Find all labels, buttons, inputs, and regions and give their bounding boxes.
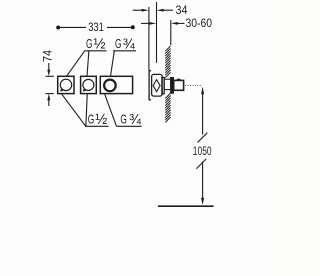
dimension 30-60 left-pointing arrowhead bbox=[171, 22, 178, 25]
valve body side view bbox=[152, 74, 163, 96]
dimension 74 lower tick bbox=[46, 93, 54, 95]
handle top ridge bbox=[177, 78, 181, 80]
dimension 331 dot right bbox=[131, 25, 135, 29]
spacer ring bbox=[162, 77, 164, 93]
svg-text:½: ½ bbox=[94, 36, 106, 53]
dimension 74 lower arrow line bbox=[48, 100, 50, 106]
handle knob bbox=[174, 80, 184, 90]
leader square 1 to G 1/2 bottom bbox=[62, 94, 86, 126]
dimension 1050 upper arrowhead (up) bbox=[201, 87, 204, 95]
dimension 30-60 tail line bbox=[141, 22, 150, 24]
wall hatching upper band bbox=[165, 46, 170, 78]
svg-text:½: ½ bbox=[95, 111, 107, 128]
centerline dotted bbox=[185, 85, 200, 87]
label G 3/4 bottom underline bbox=[117, 125, 142, 127]
valve body rectangle 3 bbox=[100, 76, 132, 93]
dimension 74 upper arrow line bbox=[48, 63, 50, 70]
valve cartridge thick circle 3 bbox=[104, 80, 116, 92]
circle 1 notch bbox=[61, 89, 63, 91]
wall hatching lower band bbox=[165, 93, 170, 122]
svg-text:34: 34 bbox=[176, 3, 188, 17]
label G 1/2 top underline bbox=[85, 50, 107, 52]
svg-text:1050: 1050 bbox=[193, 144, 212, 158]
dimension 331 dot left bbox=[56, 26, 60, 30]
valve port square 1 bbox=[58, 76, 74, 93]
extension line B bbox=[156, 2, 158, 63]
dimension 34 tail line bbox=[133, 9, 143, 11]
leader G 3/4 top to body 3 bbox=[111, 51, 115, 77]
dimension 331 line right segment bbox=[107, 26, 133, 28]
svg-text:G: G bbox=[120, 112, 127, 127]
svg-text:G: G bbox=[88, 112, 95, 127]
svg-text:¾: ¾ bbox=[123, 36, 135, 53]
svg-text:74: 74 bbox=[41, 50, 55, 62]
union nut hexagon side view bbox=[153, 80, 160, 92]
valve port square 2 bbox=[81, 76, 97, 93]
dimension 30-60 right-pointing arrowhead bbox=[149, 22, 156, 25]
label G 3/4 top underline bbox=[113, 50, 136, 52]
dimension 1050 upper line bbox=[202, 93, 204, 135]
leader body 3 to G 3/4 bottom bbox=[105, 94, 117, 126]
dimension 1050 upper break slash bbox=[198, 133, 208, 143]
dimension 30-60 leader to text bbox=[177, 22, 185, 24]
svg-text:¾: ¾ bbox=[129, 111, 141, 128]
circle 2 notch bbox=[84, 89, 86, 91]
dimension 74 upper tick bbox=[46, 75, 54, 77]
leader square 2 to G 1/2 bottom bbox=[86, 94, 87, 126]
extension line C bbox=[170, 20, 172, 45]
valve port circle 1 bbox=[60, 79, 71, 90]
svg-text:30-60: 30-60 bbox=[186, 16, 213, 30]
escutcheon plate bbox=[171, 78, 174, 94]
floor line bbox=[158, 205, 214, 207]
dimension 1050 lower arrowhead (down) bbox=[201, 198, 204, 206]
valve port circle 2 bbox=[83, 79, 94, 90]
svg-text:331: 331 bbox=[88, 20, 104, 34]
stem through wall bbox=[164, 79, 171, 89]
dimension 1050 lower line bbox=[202, 162, 204, 200]
svg-text:G: G bbox=[86, 36, 93, 51]
label G 1/2 bottom underline bbox=[85, 125, 109, 127]
leader G 1/2 top to square 2 bbox=[87, 51, 89, 77]
dimension 34 leader to text bbox=[163, 9, 174, 11]
dimension 74 lower arrowhead bbox=[47, 94, 50, 101]
leader G 1/2 top to square 1 bbox=[67, 51, 85, 77]
dimension 74 upper arrowhead bbox=[47, 70, 50, 77]
mounting bracket side view bbox=[149, 71, 151, 100]
dimension 331 line left segment bbox=[58, 26, 86, 28]
extension line A bbox=[148, 7, 150, 71]
svg-text:G: G bbox=[115, 36, 122, 51]
dimension 1050 lower break slash bbox=[196, 159, 206, 169]
dimension 34 right-pointing arrowhead bbox=[142, 9, 149, 12]
dimension 34 left-pointing arrowhead bbox=[157, 9, 164, 12]
